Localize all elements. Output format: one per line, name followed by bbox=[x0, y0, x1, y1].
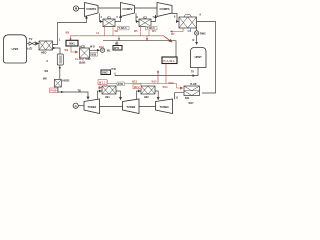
stub tank line to bus bbox=[157, 72, 159, 84]
wire heater to HOR2 bbox=[59, 65, 61, 79]
svg-text:W10: W10 bbox=[91, 53, 97, 56]
wire HPBT bottom to left bbox=[115, 68, 198, 76]
red arrow to P-A box bbox=[164, 36, 171, 41]
svg-text:RW1: RW1 bbox=[200, 32, 206, 36]
svg-text:LPBT: LPBT bbox=[12, 47, 19, 51]
svg-text:RA2: RA2 bbox=[99, 46, 104, 49]
tank HPBT bbox=[191, 48, 207, 68]
reheater HE2 bbox=[141, 86, 155, 94]
red stubs IC2 bbox=[140, 27, 142, 36]
reheater HE1 bbox=[102, 86, 116, 94]
red bus 1 bbox=[71, 35, 164, 37]
red feed REC bbox=[177, 87, 183, 89]
value box under IC2 bbox=[146, 26, 158, 30]
wire HE-C outlet right side down to REC bbox=[197, 22, 216, 94]
svg-text:TV: TV bbox=[29, 37, 33, 41]
red wire MX1 to HCD bbox=[71, 46, 78, 52]
svg-text:HCD: HCD bbox=[80, 45, 86, 48]
wire LPBT outlet bbox=[27, 43, 29, 45]
blue stub W6 under HE-C bbox=[190, 28, 192, 32]
svg-text:TURB3: TURB3 bbox=[160, 105, 169, 109]
red stub W7 under HE-C bbox=[173, 28, 184, 32]
shaft M to COMP1 bbox=[79, 8, 85, 10]
svg-text:COMP1: COMP1 bbox=[86, 7, 96, 11]
svg-text:HOR2: HOR2 bbox=[63, 79, 71, 82]
wire COMP3 outlet to HE-C bbox=[172, 14, 179, 22]
value box under IC1 bbox=[118, 26, 130, 30]
motor M1 bbox=[73, 6, 78, 11]
red value box HE2 bbox=[133, 84, 141, 89]
svg-text:DYB: DYB bbox=[118, 83, 123, 86]
wire HE2 to TURB3 bbox=[155, 91, 158, 100]
svg-text:0.N2: 0.N2 bbox=[86, 58, 92, 61]
svg-text:W2.2: W2.2 bbox=[134, 86, 140, 89]
svg-text:2W/Z: 2W/Z bbox=[102, 72, 108, 75]
heat exchanger HOR2 bbox=[54, 80, 61, 88]
wire valve to HEO bbox=[35, 43, 38, 45]
red arrows down to water line bbox=[118, 36, 120, 39]
svg-text:W-D: W-D bbox=[90, 46, 95, 49]
svg-text:HE1: HE1 bbox=[105, 96, 110, 99]
mixer MX1 bbox=[70, 36, 72, 39]
svg-text:HE2: HE2 bbox=[144, 96, 149, 99]
intercooler IC2 bbox=[139, 19, 151, 27]
wire HCD to RA2 bbox=[90, 49, 100, 51]
wire COMP1 suction bbox=[53, 16, 87, 45]
svg-text:TURB2: TURB2 bbox=[126, 105, 135, 109]
red value box HE1 bbox=[98, 80, 107, 85]
wire TURB2 to HE2 bbox=[137, 91, 141, 99]
stub node P43 bbox=[114, 73, 116, 76]
heat exchanger HCD bbox=[80, 48, 90, 58]
recuperator REC bbox=[184, 86, 200, 96]
turbine TURB3 bbox=[156, 99, 173, 114]
wire COMP2 outlet to IC2 bbox=[136, 13, 139, 21]
svg-text:B-HR: B-HR bbox=[191, 83, 197, 86]
tank LPBT bbox=[4, 35, 27, 63]
svg-text:CL:W/Q: CL:W/Q bbox=[75, 58, 84, 61]
red value box P41 bbox=[50, 88, 59, 93]
wire HOR2 to TURB1 bbox=[58, 87, 88, 99]
svg-text:N: N bbox=[193, 39, 195, 42]
water line HPBT feed bbox=[103, 41, 176, 57]
svg-text:COMP2: COMP2 bbox=[123, 7, 133, 11]
svg-text:TURB1: TURB1 bbox=[87, 105, 96, 109]
shaft G to TURB1 bbox=[78, 105, 84, 107]
wire TURB3 to REC bbox=[175, 93, 184, 100]
heat exchanger HEO bbox=[39, 41, 53, 50]
svg-text:T 321.5: T 321.5 bbox=[147, 27, 156, 30]
svg-text:b (T): b (T) bbox=[27, 47, 32, 50]
box P-A input bbox=[162, 57, 177, 64]
wire HEO lower outlet to heater bbox=[53, 48, 61, 54]
svg-text:G: G bbox=[75, 104, 77, 108]
svg-text:(B,W): (B,W) bbox=[79, 62, 85, 65]
red stubs IC1 bbox=[104, 27, 106, 36]
svg-text:COMP3: COMP3 bbox=[160, 7, 170, 11]
svg-text:P41B: P41B bbox=[51, 90, 57, 93]
svg-text:HPBT: HPBT bbox=[195, 55, 202, 59]
heat exchanger HE-C (charging cooler) bbox=[179, 15, 197, 29]
svg-text:T 321.5: T 321.5 bbox=[119, 27, 128, 30]
svg-text:WT1: WT1 bbox=[114, 47, 120, 50]
svg-text:MX1: MX1 bbox=[69, 42, 75, 46]
boundary node RW1 bbox=[194, 31, 198, 35]
svg-text:P:A·W·L: P:A·W·L bbox=[163, 59, 175, 63]
turbine TURB1 bbox=[84, 99, 100, 114]
value box under RA2 bbox=[91, 52, 98, 56]
shaft TURB1 TURB2 bbox=[100, 106, 123, 108]
red wire P-A box down bbox=[165, 64, 167, 84]
wire HE-C to HPBT with source RW1 bbox=[196, 28, 198, 45]
svg-text:B41: B41 bbox=[185, 97, 190, 100]
value box right of HE1 bbox=[117, 82, 125, 86]
stub to WT1 box bbox=[116, 41, 118, 46]
shaft TURB2 TURB3 bbox=[139, 106, 156, 108]
red bus 2 bbox=[102, 83, 177, 85]
wire COMP1 outlet to IC1 bbox=[100, 13, 103, 21]
svg-text:W14: W14 bbox=[163, 86, 169, 89]
compressor COMP3 bbox=[157, 3, 172, 17]
compressor COMP1 bbox=[85, 3, 99, 17]
intercooler IC1 bbox=[103, 19, 115, 27]
generator G1 bbox=[73, 103, 78, 108]
wire IC2 to COMP3 bbox=[151, 15, 156, 21]
heater EH1 bbox=[57, 54, 63, 65]
svg-text:P43: P43 bbox=[112, 68, 117, 71]
wire HE1 to TURB2 bbox=[116, 91, 121, 100]
value box mid bbox=[101, 70, 111, 75]
svg-text:W17: W17 bbox=[189, 102, 195, 105]
red feed HE1 bbox=[100, 84, 101, 88]
shaft COMP1 to COMP2 bbox=[98, 7, 121, 9]
svg-text:TB: TB bbox=[78, 89, 81, 92]
svg-text:W15: W15 bbox=[152, 80, 158, 83]
compressor COMP2 bbox=[121, 3, 135, 17]
valve TV bbox=[29, 42, 35, 45]
svg-text:W13: W13 bbox=[132, 80, 138, 83]
shaft COMP2 to COMP3 bbox=[135, 7, 158, 9]
value box WT1 bbox=[113, 46, 122, 51]
svg-text:HEO: HEO bbox=[41, 52, 46, 55]
svg-text:W16: W16 bbox=[169, 82, 175, 85]
svg-text:IC2: IC2 bbox=[143, 17, 148, 20]
turbine TURB2 bbox=[123, 99, 140, 114]
wire IC1 to COMP2 bbox=[115, 15, 121, 21]
boundary node RA2 bbox=[100, 48, 104, 52]
wire TURB1 to HE1 bbox=[98, 91, 102, 99]
svg-text:IC1: IC1 bbox=[107, 17, 112, 20]
